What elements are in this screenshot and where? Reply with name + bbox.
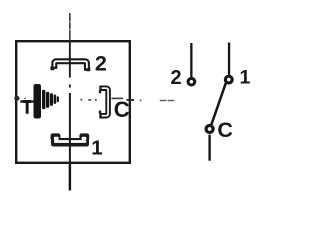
horizontal centerline dash d (bracket to edge) [112,98,124,100]
terminal clip C (right bracket) [99,88,108,116]
terminal clip 1 (bottom channel) [51,133,90,146]
vertical centerline below box [69,164,71,191]
horizontal centerline dot a [81,99,83,101]
schematic lead C (stub below) [208,135,210,161]
horizontal centerline: bump on left box edge [14,96,19,101]
horizontal centerline dot e [140,100,142,102]
enclosure box (component outline) [16,41,130,163]
horizontal centerline dash b [88,99,91,101]
vertical centerline inside box [69,41,71,164]
element stack bar 3 [46,92,49,108]
horizontal centerline dash crossing right edge [127,99,135,101]
element stack bar 6 [57,96,59,102]
element stack bar 2 [42,90,45,109]
horizontal centerline dash g [168,100,175,101]
schematic lead 2 [190,43,192,77]
svg-text:2: 2 [171,67,182,89]
vertical centerline above box [69,13,71,41]
schematic contact circle 1 [225,76,232,83]
terminal T lead wire [20,100,34,102]
svg-text:C: C [114,97,130,122]
svg-text:1: 1 [91,137,102,160]
horizontal centerline dash f [160,100,167,101]
schematic switch arm (1 to C) [211,83,226,125]
horizontal centerline dot c [95,99,97,101]
svg-text:2: 2 [95,52,107,76]
speck above T lead [24,98,26,99]
schematic contact circle C [206,126,213,133]
element stack bar 5 [54,95,57,104]
svg-text:1: 1 [240,66,251,88]
element stack bar 1 [34,84,42,119]
schematic lead 1 [228,43,230,75]
svg-text:C: C [217,118,233,142]
terminal clip 2 (top staple) [50,61,90,71]
label T [23,100,32,114]
schematic contact circle 2 [188,78,195,85]
element stack bar 4 [50,93,53,106]
